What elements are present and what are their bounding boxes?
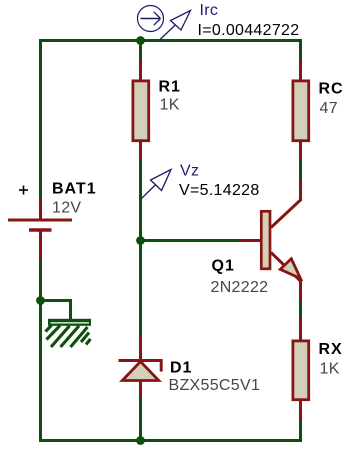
svg-text:D1: D1 — [170, 360, 192, 377]
resistor RX top pin — [299, 318, 302, 341]
svg-text:RC: RC — [319, 81, 344, 98]
transistor Q1 emitter arrowhead — [280, 259, 300, 279]
battery BAT1 positive pin — [39, 197, 42, 220]
transistor Q1 collector pin — [271, 179, 301, 228]
diode D1 bottom pin — [139, 380, 142, 399]
resistor R1 top pin — [139, 59, 142, 81]
wire RC to collector — [299, 159, 302, 181]
resistor RX bottom pin — [299, 400, 302, 424]
resistor RC top pin — [299, 59, 302, 81]
svg-text:I=0.00442722: I=0.00442722 — [198, 22, 300, 39]
node dot ground tap — [36, 296, 45, 305]
wire D1 to bottom rail — [139, 397, 142, 441]
svg-text:47: 47 — [320, 100, 338, 117]
transistor Q1 emitter pin — [271, 253, 301, 304]
wire RC branch top — [299, 39, 302, 61]
battery BAT1 plates — [8, 220, 72, 230]
svg-text:R1: R1 — [159, 79, 181, 96]
transistor Q1 base pin — [239, 239, 261, 242]
svg-text:Irc: Irc — [200, 2, 219, 19]
resistor RX body — [293, 341, 309, 400]
svg-text:1K: 1K — [320, 361, 340, 378]
node dot top junction — [136, 36, 145, 45]
resistor RC bottom pin — [299, 141, 302, 161]
svg-text:1K: 1K — [160, 97, 180, 114]
wire bottom rail — [39, 439, 302, 442]
svg-text:BZX55C5V1: BZX55C5V1 — [169, 377, 261, 394]
wire left rail lower — [39, 260, 42, 442]
resistor R1 bottom pin — [139, 141, 142, 161]
diode D1 zener symbol — [119, 360, 163, 381]
resistor RC body — [293, 81, 309, 141]
wire RX to bottom rail — [299, 422, 302, 442]
wire top rail — [39, 39, 302, 42]
svg-text:Q1: Q1 — [212, 258, 235, 275]
svg-text:2N2222: 2N2222 — [211, 279, 269, 296]
wire R1 branch top — [139, 41, 142, 62]
node dot middle junction — [136, 236, 145, 245]
diode D1 top pin — [139, 336, 142, 360]
wire ground tap — [41, 301, 71, 322]
current probe Irc circle — [138, 6, 164, 32]
battery BAT1 negative pin — [39, 231, 42, 261]
wire node to D1 — [139, 241, 142, 339]
wire emitter to RX — [299, 301, 302, 320]
label BAT1 plus sign — [19, 186, 28, 195]
svg-text:12V: 12V — [52, 200, 81, 217]
resistor R1 body — [133, 81, 149, 141]
wire R1 to node — [139, 159, 142, 241]
svg-text:BAT1: BAT1 — [52, 181, 97, 198]
wire base — [141, 239, 241, 242]
transistor Q1 base bar — [261, 211, 270, 268]
voltage probe Vz pointer — [141, 170, 172, 200]
ground — [46, 319, 92, 347]
svg-text:Vz: Vz — [180, 163, 199, 180]
wire left rail upper — [39, 39, 42, 198]
node dot bottom junction — [136, 436, 145, 445]
svg-text:V=5.14228: V=5.14228 — [179, 182, 260, 199]
current probe Irc pointer — [160, 11, 191, 41]
svg-text:RX: RX — [319, 341, 343, 358]
